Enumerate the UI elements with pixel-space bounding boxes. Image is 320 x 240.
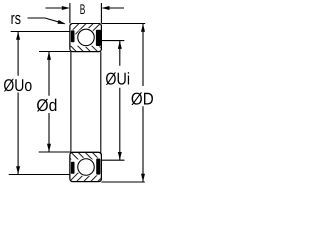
svg-text:ØD: ØD — [131, 89, 154, 108]
svg-text:rs: rs — [11, 9, 21, 28]
svg-text:B: B — [80, 1, 86, 17]
svg-text:Ød: Ød — [36, 96, 57, 115]
svg-text:ØUo: ØUo — [3, 76, 32, 95]
svg-text:ØUi: ØUi — [105, 70, 130, 89]
